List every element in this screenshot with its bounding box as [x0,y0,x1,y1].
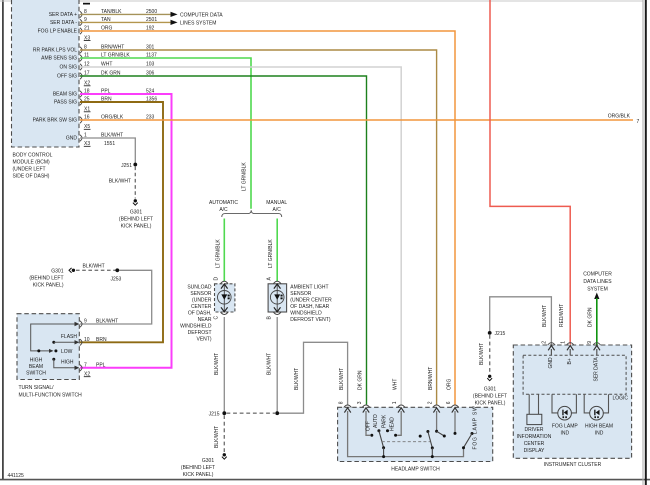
svg-text:1: 1 [560,341,566,344]
svg-text:HEAD: HEAD [390,417,396,431]
svg-text:FOG LAMP SW: FOG LAMP SW [472,406,478,450]
svg-text:SYSTEM: SYSTEM [587,287,608,293]
svg-text:BRN: BRN [101,97,112,103]
svg-text:G301: G301 [130,210,142,216]
headlamp switch pin 3 internal stub to OFF contact [363,408,370,436]
svg-text:3: 3 [357,401,363,404]
cluster pin 2 internal stub GND [548,346,554,369]
svg-text:B+: B+ [567,358,573,364]
driver information center display [517,394,552,454]
svg-text:301: 301 [146,45,155,51]
svg-text:18: 18 [84,89,90,95]
svg-text:HIGH: HIGH [30,358,43,364]
fog lamp indicator [552,394,579,436]
svg-text:1: 1 [84,133,87,139]
cluster pin 1 internal stub B+ [567,346,573,365]
splice J253 [111,268,122,282]
svg-text:FLASH: FLASH [61,334,78,340]
svg-text:DISPLAY: DISPLAY [524,448,545,454]
headlamp switch rotated wire labels [339,367,452,390]
svg-text:LOW: LOW [61,349,73,355]
instrument cluster connector arcs [548,343,601,345]
svg-text:12: 12 [84,62,90,68]
svg-text:(UNDER LEFT: (UNDER LEFT [13,167,46,173]
page border top [0,0,643,2]
svg-text:BEAM: BEAM [29,364,43,370]
headlamp switch pin 8 internal stub and ground rail [344,408,463,457]
svg-text:BLK/WHT: BLK/WHT [339,368,345,390]
ground G301 (behind left kick panel) [119,199,153,229]
contact PARK [381,414,389,432]
svg-text:1551: 1551 [104,141,115,147]
contact FLASH to pin 10 [52,334,79,345]
svg-text:OF DASH,: OF DASH, [188,311,212,317]
svg-text:WINDSHIELD: WINDSHIELD [290,311,322,317]
svg-text:IND: IND [595,430,604,436]
svg-text:J253: J253 [111,276,122,282]
svg-text:ORG: ORG [101,26,113,32]
svg-text:G301: G301 [51,268,63,274]
svg-text:PPL: PPL [96,362,106,368]
svg-text:ON SIG: ON SIG [59,65,77,71]
svg-text:1137: 1137 [146,53,157,59]
svg-text:G301: G301 [202,458,214,464]
svg-text:GND: GND [66,136,78,142]
svg-text:J215: J215 [209,411,220,417]
svg-text:BLK/WHT: BLK/WHT [479,343,485,365]
instrument cluster rotated pin numbers 2 1 9 [542,341,593,344]
svg-text:FOG LAMP: FOG LAMP [552,423,579,429]
svg-text:OFF: OFF [366,421,372,431]
park lamp section contacts and arm [419,430,434,458]
svg-text:C: C [213,316,219,320]
ground G301 (behind left kick panel) right [473,375,507,407]
document number 441125 [8,473,25,479]
fog lamp switch arm [462,406,478,450]
svg-text:ORG/BLK: ORG/BLK [101,115,124,121]
svg-text:11: 11 [84,53,89,59]
splice J251 [121,163,137,169]
headlamp switch box [338,407,493,472]
svg-text:SENSOR: SENSOR [190,291,212,297]
svg-text:PASS SIG: PASS SIG [54,100,77,106]
high beam switch internal wiring pin 9 to wiper [31,322,80,353]
arrow to computer data lines system [594,293,599,300]
svg-text:BLK/WHT: BLK/WHT [109,179,131,185]
svg-text:DRIVER: DRIVER [525,427,544,433]
svg-text:ORG: ORG [446,379,452,391]
BCM connector label X2 (cut off at page top) [83,3,90,5]
wire BLK/WHT 1551 pin 1 to splice J251 [80,133,135,163]
svg-text:BRN/WHT: BRN/WHT [101,45,124,51]
turn signal pin labels 10 BRN / 7 PPL [84,337,107,369]
svg-text:6: 6 [446,401,452,404]
svg-text:RED/WHT: RED/WHT [559,304,565,327]
svg-text:HEADLAMP SWITCH: HEADLAMP SWITCH [391,466,440,472]
svg-text:16: 16 [84,115,90,121]
svg-text:INSTRUMENT CLUSTER: INSTRUMENT CLUSTER [544,462,602,468]
svg-text:233: 233 [146,115,155,121]
svg-text:2500: 2500 [146,9,157,15]
wire LT GRN/BLK branch to ambient light sensor [266,219,277,282]
svg-text:KICK PANEL): KICK PANEL) [183,472,214,478]
ambient light sensor label [290,285,332,324]
svg-text:A/C: A/C [273,207,282,213]
svg-text:1356: 1356 [146,97,157,103]
A/C split brace [222,210,282,217]
svg-text:MODULE (BCM): MODULE (BCM) [13,160,51,166]
svg-text:KICK PANEL): KICK PANEL) [475,401,506,407]
svg-text:AUTO: AUTO [373,414,379,428]
contact LOW [54,349,72,355]
label computer data lines system [583,272,612,293]
svg-text:LINES SYSTEM: LINES SYSTEM [180,20,216,26]
svg-text:AUTOMATIC: AUTOMATIC [209,200,238,206]
svg-text:2: 2 [427,401,433,404]
turn signal / multi-function switch box [17,314,82,399]
svg-text:9: 9 [84,319,87,325]
contact HIGH to pin 7 [52,358,79,370]
page border left [2,0,4,480]
svg-text:SENSOR: SENSOR [290,291,312,297]
svg-text:17: 17 [84,71,90,77]
svg-text:AMB SENS SIG: AMB SENS SIG [41,56,77,62]
svg-text:DK GRN: DK GRN [357,370,363,390]
svg-text:SER DATA +: SER DATA + [49,12,77,18]
wire ORG/BLK 233 pin 16 to off-page pin 7 [80,114,640,125]
svg-text:524: 524 [146,89,155,95]
svg-text:BLK/WHT: BLK/WHT [96,319,118,325]
svg-text:DATA LINES: DATA LINES [583,279,612,285]
svg-text:2501: 2501 [146,17,157,23]
headlamp switch connector arcs [344,405,459,407]
contact HEAD [390,417,398,437]
svg-text:BLK/WHT: BLK/WHT [542,305,548,327]
wire BLK/WHT J215 to ground G301 [214,415,225,452]
contact AUTO with switch arm [373,414,385,458]
wire ORG 192 pin 21 to headlamp switch pin 6 [80,26,455,405]
turn signal switch pin connector arcs 9 10 7 [80,321,82,371]
svg-text:LT GRN/BLK: LT GRN/BLK [215,239,221,268]
ground G301 (behind left kick panel) at J253 [29,268,75,288]
headlamp switch rotated pin numbers 8 3 1 2 6 [338,401,451,404]
svg-text:306: 306 [146,71,155,77]
svg-text:SER DATA: SER DATA [594,357,600,382]
svg-text:7: 7 [637,119,640,125]
svg-text:25: 25 [84,97,90,103]
wire dashed splice J215 crossover [227,411,280,415]
turn signal X2 label [84,372,91,378]
svg-text:TAN/BLK: TAN/BLK [101,9,122,15]
svg-text:PARK: PARK [381,414,387,428]
svg-text:WHT: WHT [101,62,112,68]
svg-text:DEFROST VENT): DEFROST VENT) [290,317,331,323]
svg-text:9: 9 [587,341,593,344]
svg-text:BLK/WHT: BLK/WHT [294,368,300,390]
logic box [523,355,628,401]
svg-text:441125: 441125 [8,473,25,479]
svg-text:COMPUTER DATA: COMPUTER DATA [180,12,223,18]
svg-text:TAN: TAN [101,17,111,23]
svg-text:8: 8 [84,9,87,15]
svg-text:GND: GND [548,357,554,369]
svg-text:CENTER: CENTER [524,441,545,447]
label MANUAL A/C [266,200,287,213]
contact OFF [366,421,374,437]
svg-text:MANUAL: MANUAL [266,200,287,206]
svg-text:PPL: PPL [101,89,111,95]
sunload sensor box [215,281,235,314]
svg-text:DEFROST: DEFROST [188,330,212,336]
svg-text:J251: J251 [121,163,132,169]
wire BLK/WHT splice to headlamp switch pin 8 [279,342,348,413]
high beam indicator [584,394,613,436]
svg-text:103: 103 [146,62,155,68]
arrow to computer data lines system [171,20,217,27]
svg-text:OFF SIG: OFF SIG [57,74,77,80]
wire BLK/WHT J215 to ground G301 [479,335,490,374]
svg-text:VENT): VENT) [197,337,212,343]
svg-text:MULTI-FUNCTION SWITCH: MULTI-FUNCTION SWITCH [19,392,83,398]
arrow to computer data lines system [171,12,224,19]
wire PPL 524 pin 18 to turn signal switch pin 7 [80,89,172,368]
wire RED/WHT fuse feed to instrument cluster pin 1 [490,0,570,345]
wire BRN 1356 pin 25 to turn signal switch pin 10 [80,97,163,343]
wire DK GRN 306 pin 17 to headlamp switch pin 3 [80,71,367,405]
svg-text:SIDE OF DASH): SIDE OF DASH) [13,174,50,180]
svg-text:2: 2 [542,341,548,344]
svg-text:LT GRN/BLK: LT GRN/BLK [242,162,248,191]
splice J215 (left) [209,411,227,417]
svg-text:AMBIENT LIGHT: AMBIENT LIGHT [290,285,328,291]
wire BLK/WHT ambient sensor to splice J215 [267,317,278,413]
svg-text:(BEHIND LEFT: (BEHIND LEFT [119,217,153,223]
svg-text:(UNDER CENTER: (UNDER CENTER [290,298,332,304]
headlamp switch pin 2 internal stub with blade [433,408,445,438]
svg-text:BLK/WHT: BLK/WHT [101,133,123,139]
svg-text:KICK PANEL): KICK PANEL) [121,224,152,230]
svg-text:21: 21 [84,26,90,32]
BCM connector group labels X3 X2 X1 X5 X3 [84,36,91,148]
ground G301 (behind left kick panel) lower [181,453,227,478]
instrument cluster box [513,345,631,468]
svg-text:DK GRN: DK GRN [101,71,121,77]
svg-text:CENTER: CENTER [191,304,212,310]
svg-text:SER DATA -: SER DATA - [50,20,77,26]
svg-text:PARK BRK SW SIG: PARK BRK SW SIG [33,118,77,124]
svg-text:LOGIC: LOGIC [612,396,628,402]
headlamp switch pin 6 internal stub to fog contact [452,408,458,435]
svg-text:TURN SIGNAL/: TURN SIGNAL/ [19,385,55,391]
svg-text:COMPUTER: COMPUTER [583,272,612,278]
svg-text:SUNLOAD: SUNLOAD [187,285,212,291]
svg-text:LT GRN/BLK: LT GRN/BLK [268,239,274,268]
svg-text:LT GRN/BLK: LT GRN/BLK [101,53,130,59]
wire BLK/WHT J251 to ground G301 [109,167,136,199]
pin C label [213,316,219,320]
svg-text:HIGH: HIGH [61,360,74,366]
wire BRN/WHT 301 pin 8 to headlamp switch pin 2 [80,45,437,405]
page border right [643,0,646,485]
svg-text:8: 8 [338,401,344,404]
mechanical linkage dashed line [382,441,430,443]
sunload sensor label [180,285,212,343]
wire BLK/WHT J253 to turn signal switch pin 9 [80,270,152,324]
body control module U-BCM box [12,0,80,147]
svg-text:(BEHIND LEFT: (BEHIND LEFT [473,394,507,400]
wire BLK/WHT sunload sensor to splice J215 [214,317,225,412]
headlamp switch pin 1 internal stub to HEAD contact [397,408,404,436]
svg-text:DK GRN: DK GRN [587,307,593,327]
svg-text:A/C: A/C [219,207,228,213]
wire BLK/WHT J215 to instrument cluster pin 2 [490,297,552,345]
wire DK GRN serial data to instrument cluster pin 9 [587,298,597,345]
svg-text:8: 8 [84,45,87,51]
ambient light sensor box [268,281,287,314]
wire TAN/BLK 2500 pin 8 [80,9,171,15]
wire LT GRN/BLK branch to sunload sensor [213,219,224,282]
wire BLK/WHT ground to splice J253 [76,263,116,270]
svg-text:WHT: WHT [393,379,399,390]
svg-text:RR PARK LPS VOL: RR PARK LPS VOL [33,48,77,54]
pin B label [266,316,272,320]
svg-text:WINDSHIELD: WINDSHIELD [180,324,212,330]
BCM pin connector arcs [80,11,82,141]
label AUTOMATIC A/C [209,200,238,213]
svg-text:(BEHIND LEFT: (BEHIND LEFT [29,275,63,281]
wire TAN 2501 pin 9 [80,17,171,23]
svg-text:BEAM SIG: BEAM SIG [53,92,77,98]
splice J215 (right) [488,331,506,337]
svg-text:9: 9 [84,17,87,23]
svg-text:BODY CONTROL: BODY CONTROL [13,153,53,159]
svg-text:G301: G301 [484,387,496,393]
svg-text:BLK/WHT: BLK/WHT [267,353,273,375]
svg-text:D: D [213,277,219,281]
svg-text:OF DASH, NEAR: OF DASH, NEAR [290,304,329,310]
svg-text:(BEHIND LEFT: (BEHIND LEFT [181,465,215,471]
svg-text:IND: IND [560,430,569,436]
svg-text:SWITCH: SWITCH [26,371,46,377]
ambient light sensor internal photocell [270,284,284,312]
BCM pin name labels [33,12,78,142]
svg-text:HIGH BEAM: HIGH BEAM [585,423,613,429]
svg-text:NEAR: NEAR [198,317,212,323]
svg-text:BRN/WHT: BRN/WHT [428,367,434,390]
svg-text:(UNDER: (UNDER [192,298,212,304]
wire LT GRN/BLK 1137 pin 11 to A/C split [80,53,251,209]
svg-text:1: 1 [392,401,398,404]
svg-text:7: 7 [84,362,87,368]
svg-text:BRN: BRN [96,337,107,343]
svg-text:ORG/BLK: ORG/BLK [608,114,631,120]
page border bottom [0,479,650,481]
svg-text:BLK/WHT: BLK/WHT [83,263,105,269]
svg-text:10: 10 [84,337,90,343]
svg-text:INFORMATION: INFORMATION [517,434,552,440]
svg-text:192: 192 [146,26,155,32]
svg-text:KICK PANEL): KICK PANEL) [33,282,64,288]
svg-text:BLK/WHT: BLK/WHT [214,353,220,375]
sunload sensor internal photocell [218,284,232,312]
high beam switch label [26,358,46,377]
svg-text:J215: J215 [495,331,506,337]
svg-text:FOG LP ENABLE: FOG LP ENABLE [38,29,78,35]
svg-text:BLK/WHT: BLK/WHT [214,426,220,448]
cluster pin 9 internal stub SER DATA [594,346,600,382]
BCM text label [13,153,53,180]
wire WHT 103 pin 12 to headlamp switch pin 1 [80,62,401,405]
